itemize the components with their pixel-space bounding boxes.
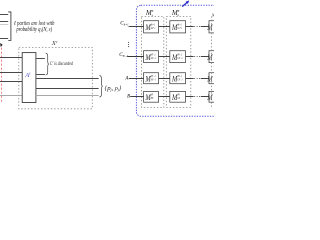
svg-text:CN−2: CN−2 — [119, 52, 128, 58]
svg-text:Xc: Xc — [51, 40, 58, 47]
svg-text:Ak+1: Ak+1 — [150, 27, 156, 30]
svg-text:Ck+1: Ck+1 — [177, 27, 183, 30]
svg-text:CN−1: CN−1 — [177, 78, 183, 81]
svg-text:BN: BN — [151, 97, 154, 100]
svg-text:AN−2: AN−2 — [150, 57, 157, 60]
svg-text:Mθρ: Mθρ — [171, 9, 180, 17]
svg-text:{pj, ρj}: {pj, ρj} — [105, 85, 122, 92]
svg-text:A: A — [125, 76, 129, 81]
svg-text:AN−1: AN−1 — [150, 78, 157, 81]
svg-text:CN−2: CN−2 — [177, 57, 183, 60]
svg-text:B: B — [127, 95, 130, 100]
svg-text:M: M — [206, 93, 213, 102]
svg-text:C′ is discarded: C′ is discarded — [50, 60, 74, 66]
svg-text:M: M — [206, 75, 213, 84]
svg-text:M: M — [206, 53, 213, 62]
svg-text:probability qℓ(N, ε): probability qℓ(N, ε) — [16, 25, 53, 33]
svg-text:M: M — [206, 24, 213, 33]
svg-text:Ck+1: Ck+1 — [120, 21, 129, 27]
svg-text:CN: CN — [177, 97, 180, 100]
